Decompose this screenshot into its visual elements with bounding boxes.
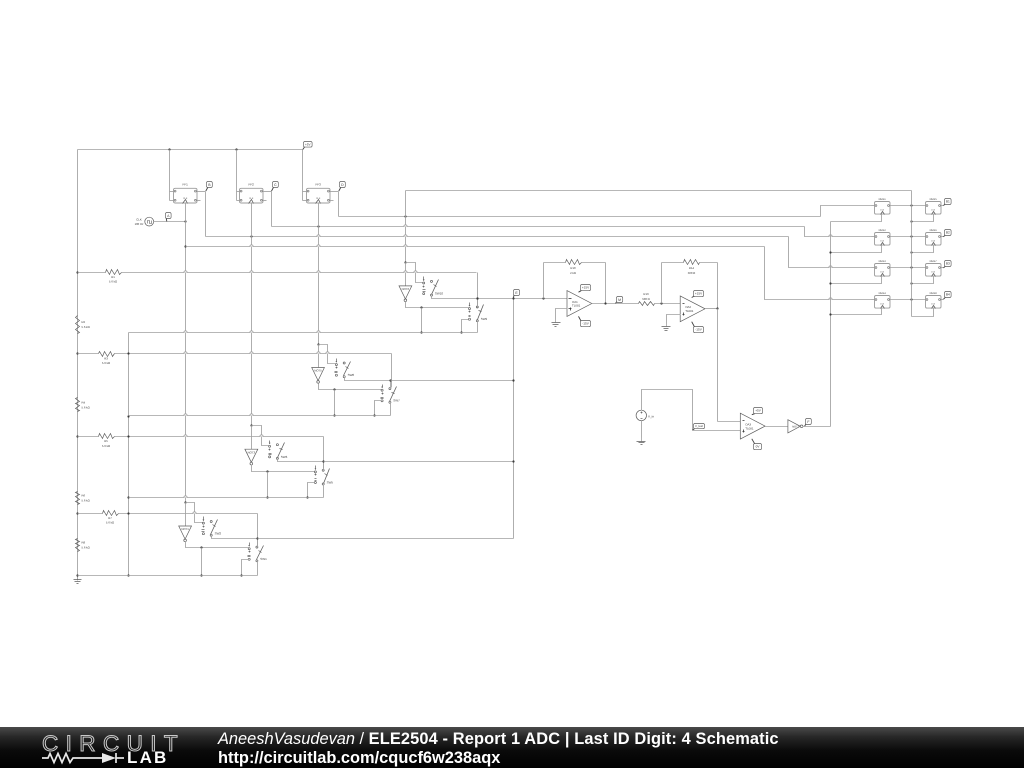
junction FF2 clk node B (250, 235, 252, 237)
source CLK 100 Hz (135, 217, 154, 226)
wire hops (184, 225, 832, 514)
op-amp OA1 (567, 291, 592, 317)
svg-text:R2: R2 (82, 320, 86, 324)
junction throw bus (306, 496, 308, 498)
svg-text:REG1: REG1 (879, 198, 887, 201)
junction feedback OA1 (542, 297, 544, 299)
wire cluster3 out to collector (324, 461, 514, 463)
svg-text:-15V: -15V (695, 328, 702, 332)
svg-text:FF3: FF3 (316, 183, 322, 187)
resistor R2 (76, 316, 90, 334)
wire SW1 throw stub (242, 560, 249, 576)
wire node D riser (405, 191, 407, 263)
svg-text:5.6 kΩ: 5.6 kΩ (82, 405, 90, 409)
wire REG1 in stub (872, 205, 875, 207)
junction NOT1 output branch (200, 546, 202, 548)
junction left bus (127, 415, 129, 417)
svg-text:500 Ω: 500 Ω (642, 297, 650, 301)
svg-text:CLK: CLK (880, 240, 885, 243)
junction branch bus (333, 414, 335, 416)
junction D clk 7 (910, 282, 912, 284)
wire node D column vertical (911, 191, 913, 317)
resistor R10 (566, 260, 582, 276)
inverter NOT1 (179, 526, 192, 542)
wire CLK to node A (154, 221, 186, 223)
resistor R5 (99, 434, 115, 448)
wire NOT7 out (803, 426, 831, 428)
svg-text:CLK: CLK (880, 303, 885, 306)
switch SW9 (469, 303, 488, 322)
wire collector vertical (513, 299, 515, 539)
op-amp OA2 (680, 296, 705, 322)
svg-text:SW2: SW2 (215, 532, 222, 536)
wire REG4 clk stub (831, 308, 882, 315)
wire lower bus 4 (78, 575, 258, 577)
wire REG5 out stub (941, 205, 944, 207)
wire SW7 throw stub (375, 401, 382, 416)
wire node A vertical (185, 204, 187, 503)
wire SW9 pole up (477, 299, 479, 308)
svg-text:CLK: CLK (880, 271, 885, 274)
wire FF1 Qbar stub (197, 200, 201, 202)
svg-text:R14: R14 (689, 266, 695, 270)
svg-text:CLK: CLK (931, 209, 936, 212)
junction left bus (127, 574, 129, 576)
svg-text:5.6 kΩ: 5.6 kΩ (109, 280, 117, 284)
svg-text:CLK: CLK (183, 197, 188, 200)
svg-text:CLK: CLK (880, 209, 885, 212)
junction SW5 out (322, 460, 324, 462)
wire FF2 clk vertical (251, 204, 253, 426)
register REG4 (875, 292, 891, 308)
power flag +5V (303, 142, 312, 150)
wire lower bus 2 (129, 415, 391, 417)
wire +5V drop to FF1 (169, 150, 171, 201)
inverter NOT5 (312, 368, 325, 384)
wire bus A to REG4 (765, 247, 872, 300)
junction latch clk 4 (829, 313, 831, 315)
wire lower bus 3 (129, 497, 324, 499)
wire SW9 throw stub (462, 320, 469, 333)
register REG5 (926, 198, 942, 214)
svg-text:CLK: CLK (316, 197, 321, 200)
junction branch bus (200, 574, 202, 576)
wire NOT5 input (318, 345, 320, 368)
junction NOT3 output branch (266, 470, 268, 472)
svg-text:SW7: SW7 (393, 399, 400, 403)
wire REG1 clk stub (831, 215, 882, 222)
svg-text:R6: R6 (82, 494, 86, 498)
power flag OA2 -15V (692, 322, 704, 333)
svg-text:5.6 kΩ: 5.6 kΩ (102, 361, 110, 365)
CircuitLab logo text (42, 731, 185, 757)
wire NOT3 output (252, 465, 315, 472)
wire REG4 to REG8 (890, 299, 926, 301)
wire FF3 clk vertical (318, 204, 320, 345)
svg-text:REG7: REG7 (930, 260, 938, 263)
wire FF2 Qbar stub (264, 200, 267, 202)
wire latch riser (830, 222, 832, 427)
flip-flop FF1 (174, 183, 198, 204)
svg-text:TL081: TL081 (685, 309, 694, 313)
junction collector c2 (512, 379, 514, 381)
wire SW5 throw stub (308, 483, 315, 498)
junction left bus (127, 435, 129, 437)
junction branch bus (420, 331, 422, 333)
wire REG4 in stub (872, 299, 875, 301)
ground OA1 (552, 320, 561, 327)
junction ladder (76, 352, 78, 354)
svg-text:CLK: CLK (249, 197, 254, 200)
wire REG5 clk stub (912, 215, 934, 222)
wire REG2 clk stub (831, 246, 882, 253)
svg-text:B3: B3 (946, 262, 950, 266)
junction D clk 6 (910, 251, 912, 253)
junction NOT3 tap (250, 424, 252, 426)
junction SW1 out (256, 537, 258, 539)
resistor R13 (639, 292, 655, 305)
wire OA1 feedback right (605, 263, 607, 304)
flip-flop FF2 (240, 183, 264, 204)
wire OA2 + to ground (667, 315, 681, 324)
svg-text:R13: R13 (643, 292, 649, 296)
svg-text:V_test: V_test (695, 424, 703, 428)
svg-text:REG3: REG3 (879, 260, 887, 263)
svg-text:REG2: REG2 (879, 229, 887, 232)
junction column 1 (910, 204, 912, 206)
wire NOT1 branch down (201, 548, 203, 576)
wire +5V drop to FF2 (236, 150, 238, 201)
svg-text:M: M (618, 298, 621, 302)
power flag OA3 0V (752, 439, 762, 450)
power flag OA1 -15V (579, 316, 591, 326)
junction branch bus (266, 496, 268, 498)
junction OA2 fb in (660, 302, 662, 304)
wire ladder vertical (77, 150, 79, 576)
wire REG3 clk stub (831, 277, 882, 284)
junction latch clk 3 (829, 282, 831, 284)
svg-text:5.6 kΩ: 5.6 kΩ (82, 325, 90, 329)
node flag B (206, 182, 213, 192)
wire REG2 to REG6 (890, 236, 926, 238)
resistor R3 (99, 352, 115, 366)
junction left bus (127, 512, 129, 514)
svg-text:CLK: CLK (931, 240, 936, 243)
flip-flop FF3 (307, 183, 331, 204)
net flag B2 (944, 230, 952, 237)
svg-text:REG8: REG8 (930, 292, 938, 295)
svg-text:FF1: FF1 (183, 183, 189, 187)
wire REG7 clk stub (912, 277, 934, 284)
wire SW5 pole down (323, 485, 325, 498)
wire NOT3 input (251, 426, 253, 450)
resistor R8 (76, 539, 90, 552)
junction summing R1 (476, 297, 478, 299)
ground OA2 (662, 324, 671, 331)
wire summing line (478, 298, 568, 300)
svg-text:R7: R7 (108, 516, 112, 520)
svg-text:SW8: SW8 (348, 373, 355, 377)
node flag D (339, 182, 346, 192)
switch SW10 (423, 277, 444, 297)
svg-text:CLK: CLK (931, 271, 936, 274)
wire SW2 pole down (212, 536, 258, 539)
svg-text:SW5: SW5 (327, 480, 334, 484)
svg-text:R10: R10 (570, 266, 576, 270)
switch SW8 (335, 359, 355, 378)
wire step to SW8 (319, 345, 336, 364)
switch SW5 (314, 466, 333, 486)
wire REG7 out stub (941, 267, 944, 269)
logo resistor+diode glyph (40, 751, 132, 765)
svg-text:NOT7: NOT7 (792, 425, 799, 428)
switch SW2 (202, 517, 222, 537)
wire OA2 feedback top (662, 262, 718, 264)
svg-text:R5: R5 (104, 439, 108, 443)
svg-text:NOT6: NOT6 (402, 287, 410, 291)
net flag V_test (693, 424, 705, 431)
junction SW9 out (476, 297, 478, 299)
wire node D vertical (338, 192, 340, 217)
junction column 4 (910, 298, 912, 300)
register REG2 (875, 229, 891, 245)
wire step to SW2 (186, 503, 203, 523)
ground ladder (74, 577, 82, 584)
wire R1 corner down (477, 273, 479, 306)
wire R3 branch (78, 353, 392, 355)
net flag B3 (944, 261, 952, 269)
wire NOT1 output (186, 542, 249, 548)
junction top rail FF2 (235, 148, 237, 150)
wire REG3 to REG7 (890, 267, 926, 269)
net flag latch (805, 419, 812, 427)
wire node A bus (186, 246, 765, 248)
source V_in (636, 410, 654, 420)
svg-text:R3: R3 (104, 356, 108, 360)
svg-text:SW1: SW1 (260, 557, 267, 561)
net flag B4 (944, 292, 952, 300)
wire OA1 output (592, 303, 639, 305)
wire OA2 out down (717, 309, 719, 422)
wire step to SW6 (252, 426, 269, 446)
wire cluster4 out to collector (258, 538, 514, 540)
svg-text:+15V: +15V (695, 292, 703, 296)
junction ladder (76, 574, 78, 576)
wire SW5 pole up (323, 462, 325, 471)
wire FF3 Qbar stub (330, 200, 334, 202)
junction NOT6 output branch (420, 306, 422, 308)
net flag B1 (944, 199, 952, 206)
junction NOT6 tap (404, 261, 406, 263)
wire FF3 Q to corner (330, 191, 339, 193)
wire FF1 Q to corner (197, 191, 206, 193)
junction node A bus (184, 245, 186, 247)
svg-text:REG5: REG5 (930, 198, 938, 201)
wire SW6 pole down (278, 459, 324, 462)
svg-text:5.6 kΩ: 5.6 kΩ (82, 498, 90, 502)
wire R13 to OA2 (655, 303, 681, 305)
svg-text:B2: B2 (946, 231, 950, 235)
resistor R7 (103, 511, 119, 525)
junction NOT1 tap (184, 501, 186, 503)
wire left bus vertical (128, 335, 130, 576)
junction latch clk 2 (829, 251, 831, 253)
svg-text:SW10: SW10 (435, 292, 444, 296)
svg-text:+5V: +5V (755, 409, 762, 413)
junction ladder (76, 435, 78, 437)
junction left bus (127, 496, 129, 498)
svg-text:+15V: +15V (582, 286, 590, 290)
resistor R4 (76, 398, 90, 412)
wire NOT5 branch down (334, 390, 336, 416)
switch SW7 (381, 385, 401, 404)
wire FF2 Q to corner (264, 191, 272, 193)
wire OA2 output (706, 308, 718, 310)
junction NOT5 output branch (333, 388, 335, 390)
node flag C (272, 182, 279, 192)
register REG3 (875, 260, 891, 276)
wire node D bus (339, 216, 821, 218)
wire NOT6 output (406, 302, 469, 308)
wire node D top rail (406, 190, 912, 192)
power flag OA3 +5V (752, 408, 763, 415)
wire comparator out (766, 426, 788, 428)
wire +5V top rail (78, 149, 303, 151)
wire V_in down (641, 421, 643, 438)
svg-text:100 Hz: 100 Hz (135, 222, 144, 226)
wire NOT5 output (319, 384, 382, 390)
wire REG8 out stub (941, 299, 944, 301)
svg-text:NOT5: NOT5 (314, 369, 322, 373)
junction throw bus (373, 414, 375, 416)
inverter NOT6 (399, 286, 412, 302)
svg-text:R1: R1 (111, 275, 115, 279)
svg-text:REG6: REG6 (930, 229, 938, 232)
wire R7 corner down (257, 514, 259, 548)
switch SW6 (269, 441, 288, 460)
svg-text:SW6: SW6 (281, 455, 288, 459)
junction D clk 5 (910, 220, 912, 222)
junction summing flag (512, 297, 514, 299)
register REG8 (926, 292, 942, 308)
wire FF1 JK tie (170, 192, 174, 201)
resistor R1 (106, 270, 122, 284)
wire +5V drop to FF3 (302, 150, 304, 201)
wire SW7 pole up (390, 381, 392, 389)
wire R5 branch (78, 436, 324, 438)
ground V_in (637, 438, 646, 445)
register REG1 (875, 198, 891, 214)
svg-text:R4: R4 (82, 401, 86, 405)
wire ladder to ground (77, 576, 79, 581)
svg-text:F: F (807, 420, 809, 424)
power flag OA1 +15V (579, 285, 591, 293)
wire step to SW10 (406, 263, 423, 283)
junction NOT5 tap (317, 343, 319, 345)
svg-text:B1: B1 (946, 200, 950, 204)
op-amp OA3 comparator (740, 413, 765, 439)
wire REG8 clk loop (912, 308, 934, 317)
svg-text:NOT3: NOT3 (248, 450, 256, 454)
power flag OA2 +15V (692, 291, 704, 298)
svg-text:CLK: CLK (931, 303, 936, 306)
wire lower bus 1 (129, 333, 478, 335)
svg-text:5.6 kΩ: 5.6 kΩ (102, 444, 110, 448)
net flag V sum (513, 290, 519, 299)
svg-text:500 Ω: 500 Ω (688, 271, 696, 275)
wire R5 corner down (323, 437, 325, 469)
register REG7 (926, 260, 942, 276)
wire node B bus (206, 236, 789, 238)
wire NOT6 branch down (421, 308, 423, 333)
wire SW10 pole down (432, 296, 478, 299)
wire SW1 pole up (257, 539, 259, 548)
resistor R6 (76, 492, 90, 505)
inverter NOT7 (788, 420, 803, 433)
svg-text:B4: B4 (946, 293, 950, 297)
wire SW7 pole down (390, 403, 392, 416)
wire FF2 JK tie (237, 192, 240, 201)
net flag OA1 out (616, 297, 623, 304)
wire REG1 to REG5 (890, 205, 926, 207)
junction OA1 fb out (604, 302, 606, 304)
wire node C vertical (271, 192, 273, 227)
svg-text:NOT1: NOT1 (181, 527, 189, 531)
junction node A clk (184, 220, 186, 222)
wire bus D to REG1 (821, 206, 872, 217)
wire SW9 pole down (477, 321, 479, 333)
wire to comparator minus (718, 421, 741, 423)
svg-text:R8: R8 (82, 541, 86, 545)
wire REG6 out stub (941, 236, 944, 238)
wire bus B to REG3 (789, 237, 872, 268)
wire REG3 in stub (872, 267, 875, 269)
junction ladder (76, 512, 78, 514)
junction ladder (76, 271, 78, 273)
svg-text:REG4: REG4 (879, 292, 887, 295)
resistor R14 (684, 260, 700, 276)
junction column 3 (910, 266, 912, 268)
wire OA1 + to ground (556, 309, 568, 320)
junction top rail FF1 (168, 148, 170, 150)
junction throw bus (460, 331, 462, 333)
switch SW1 (248, 543, 268, 562)
junction FF3 clk node C (317, 225, 319, 227)
wire REG6 clk stub (912, 246, 934, 253)
wire NOT6 input (405, 263, 407, 286)
wire bus C to REG2 (805, 227, 872, 237)
svg-text:+5V: +5V (305, 142, 312, 146)
svg-text:2 kΩ: 2 kΩ (570, 271, 576, 275)
wire R3 corner down (391, 354, 393, 388)
svg-text:SW9: SW9 (481, 317, 488, 321)
wire FF3 JK tie (303, 192, 307, 201)
wire node B vertical (205, 192, 207, 237)
svg-text:5.6 kΩ: 5.6 kΩ (106, 521, 114, 525)
junction collector c3 (512, 460, 514, 462)
svg-text:CLK: CLK (136, 217, 142, 221)
svg-text:5.6 kΩ: 5.6 kΩ (82, 545, 90, 549)
junction left bus (127, 352, 129, 354)
svg-text:-15V: -15V (582, 322, 589, 326)
wire OA2 feedback right (717, 263, 719, 309)
wire OA1 feedback top (544, 262, 606, 264)
wire NOT1 input (185, 503, 187, 527)
wire R7 branch (78, 513, 258, 515)
wire V_in up (642, 390, 693, 431)
svg-text:FF2: FF2 (249, 183, 255, 187)
wire REG2 in stub (872, 236, 875, 238)
